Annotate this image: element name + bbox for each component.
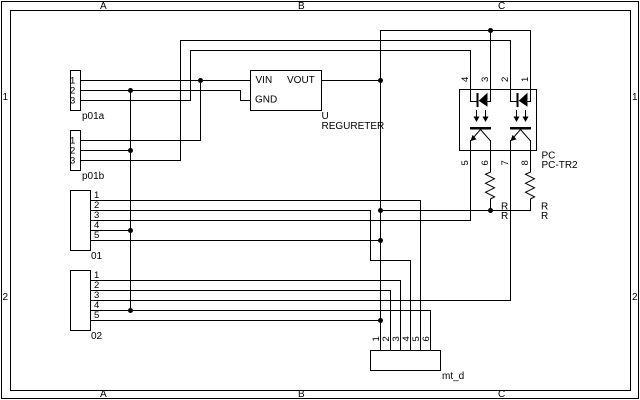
wire vertical x510 opto pin7 (510, 150, 512, 301)
junction dot x380/y210 (378, 208, 383, 213)
svg-text:7: 7 (500, 160, 511, 165)
svg-text:01: 01 (91, 251, 103, 262)
wire vertical x530 opto pin1 (530, 30, 532, 90)
opto LED1 cathode bar (477, 93, 479, 107)
transistor Q1 emitter (471, 130, 481, 141)
wire p01a.1 to U.VIN (80, 80, 251, 82)
svg-text:4: 4 (460, 77, 471, 82)
junction dot R1/y210 (488, 208, 493, 213)
wire y40 to opto pin2 (180, 40, 511, 42)
wire 02.3 (90, 300, 511, 302)
svg-text:6: 6 (480, 160, 491, 165)
wire resistor bottoms y210 (380, 210, 531, 212)
transistor Q2 collector (521, 130, 531, 141)
wire vertical x380 VOUT net (380, 30, 382, 351)
transistor Q1 collector (481, 130, 491, 141)
svg-text:5: 5 (94, 230, 99, 241)
svg-text:2: 2 (3, 292, 9, 303)
resistor R1 (486, 172, 495, 199)
wire vertical x180 (180, 40, 182, 161)
wire 02.5 (90, 320, 381, 322)
wire 01.4 (90, 230, 131, 232)
wire vertical x510 opto pin2 (510, 40, 512, 90)
wire vertical x400 mt_d.3 (400, 280, 402, 351)
wire p01a.3 (80, 100, 191, 102)
wire 01.2 (90, 210, 371, 212)
junction dot 01.5/x380 (378, 238, 383, 243)
svg-text:C: C (498, 1, 505, 12)
svg-text:1: 1 (3, 92, 9, 103)
svg-text:3: 3 (70, 96, 75, 107)
svg-text:1: 1 (520, 77, 531, 82)
wire 02.4 to mt_d.6 (90, 310, 431, 312)
wire opto pin6 to R1 (490, 150, 492, 173)
connector p01b (71, 131, 81, 171)
opto arrow 1a (474, 110, 529, 122)
svg-text:B: B (298, 1, 305, 12)
wire GND jog vertical (240, 90, 242, 101)
wire vertical x200 VIN to p01b.1 (200, 80, 202, 141)
wire 02.1 (90, 280, 401, 282)
wire opto pin8 to R2 (530, 150, 532, 173)
wire p01b.1 (80, 140, 201, 142)
connector p01a (71, 71, 81, 111)
wire vertical x130 (130, 90, 132, 311)
junction dot p01a.2/x130 (128, 88, 133, 93)
wire vertical x420 mt_d.5 (420, 200, 422, 351)
wire vertical x470 opto pin5 (470, 150, 472, 221)
wire vertical x390 mt_d.2 (390, 290, 392, 351)
svg-text:R: R (541, 211, 548, 222)
connector mt_d (371, 351, 441, 371)
wire y30 top (380, 30, 531, 32)
opto arrow 2a (516, 110, 518, 118)
svg-text:REGURETER: REGURETER (322, 121, 385, 132)
opto arrow 1b (485, 110, 487, 118)
wire vertical x190 (190, 50, 192, 101)
wire 01.1 (90, 200, 421, 202)
junction dot VIN/x200 (198, 78, 203, 83)
svg-text:5: 5 (460, 160, 471, 165)
opto arrow 2b (525, 110, 527, 118)
opto LED1 wires (470, 89, 491, 102)
wire GND jog horizontal to U.GND (240, 100, 251, 102)
junction dot VOUT/x380 (378, 78, 383, 83)
wire R2 bottom stub (530, 199, 532, 212)
wire U.VOUT to x380 (321, 80, 381, 82)
wire 02.2 (90, 290, 391, 292)
wire y50 to opto pin4 (190, 50, 471, 52)
wire p01b.3 (80, 160, 181, 162)
junction dot 02.5/x380 (378, 318, 383, 323)
wire vertical x470 opto pin4 (470, 50, 472, 90)
resistor R2 (526, 172, 535, 199)
transistor Q1 base bar (470, 127, 491, 130)
svg-text:VIN: VIN (256, 75, 273, 86)
wire y260 (370, 260, 411, 262)
svg-text:2: 2 (632, 292, 638, 303)
transistor Q1 emitter arrow (471, 135, 477, 141)
svg-text:C: C (498, 389, 505, 400)
wire vertical x490 opto pin3 (490, 30, 492, 90)
svg-text:2: 2 (500, 77, 511, 82)
svg-text:p01a: p01a (82, 111, 105, 122)
opto LED1 triangle (479, 93, 488, 107)
wire R1 bottom (490, 199, 492, 212)
wire 01.5 (90, 240, 381, 242)
opto LED2 cathode bar (517, 93, 519, 107)
optocoupler PC box (460, 90, 537, 151)
junction dot 01.4/x130 (128, 228, 133, 233)
svg-text:PC-TR2: PC-TR2 (542, 160, 579, 171)
svg-text:p01b: p01b (82, 171, 105, 182)
svg-text:5: 5 (94, 310, 99, 321)
svg-text:1: 1 (632, 92, 638, 103)
transistor Q2 leads (511, 140, 531, 151)
transistor Q2 emitter arrow (511, 135, 517, 141)
wire vertical x430 mt_d.6 (430, 310, 432, 351)
svg-text:3: 3 (70, 156, 75, 167)
junction dot p01b.2/x130 (128, 148, 133, 153)
connector 01 (71, 191, 91, 251)
junction dot 02.4/x130 (128, 308, 133, 313)
wire vertical x410 mt_d.4 (410, 260, 412, 351)
op-amp U regulator box (251, 71, 322, 111)
wire p01a.2 to GND jog (80, 90, 241, 92)
svg-text:mt_d: mt_d (442, 371, 464, 382)
opto LED2 wires (510, 89, 531, 102)
svg-text:8: 8 (520, 160, 531, 165)
wire vertical x370 (370, 210, 372, 261)
svg-text:B: B (298, 389, 305, 400)
wire 01.3 (90, 220, 471, 222)
transistor Q2 emitter (511, 130, 521, 141)
svg-text:A: A (100, 1, 107, 12)
svg-text:A: A (100, 389, 107, 400)
opto LED2 triangle (519, 93, 528, 107)
svg-text:6: 6 (421, 336, 432, 341)
svg-text:GND: GND (255, 95, 277, 106)
junction dot y30/x490 (488, 28, 493, 33)
connector 02 (71, 271, 91, 331)
transistor Q1 leads (471, 140, 491, 151)
svg-text:R: R (501, 211, 508, 222)
transistor Q2 base bar (510, 127, 531, 130)
svg-text:02: 02 (91, 331, 103, 342)
wire p01b.2 (80, 150, 131, 152)
svg-text:3: 3 (480, 77, 491, 82)
svg-text:VOUT: VOUT (287, 75, 315, 86)
